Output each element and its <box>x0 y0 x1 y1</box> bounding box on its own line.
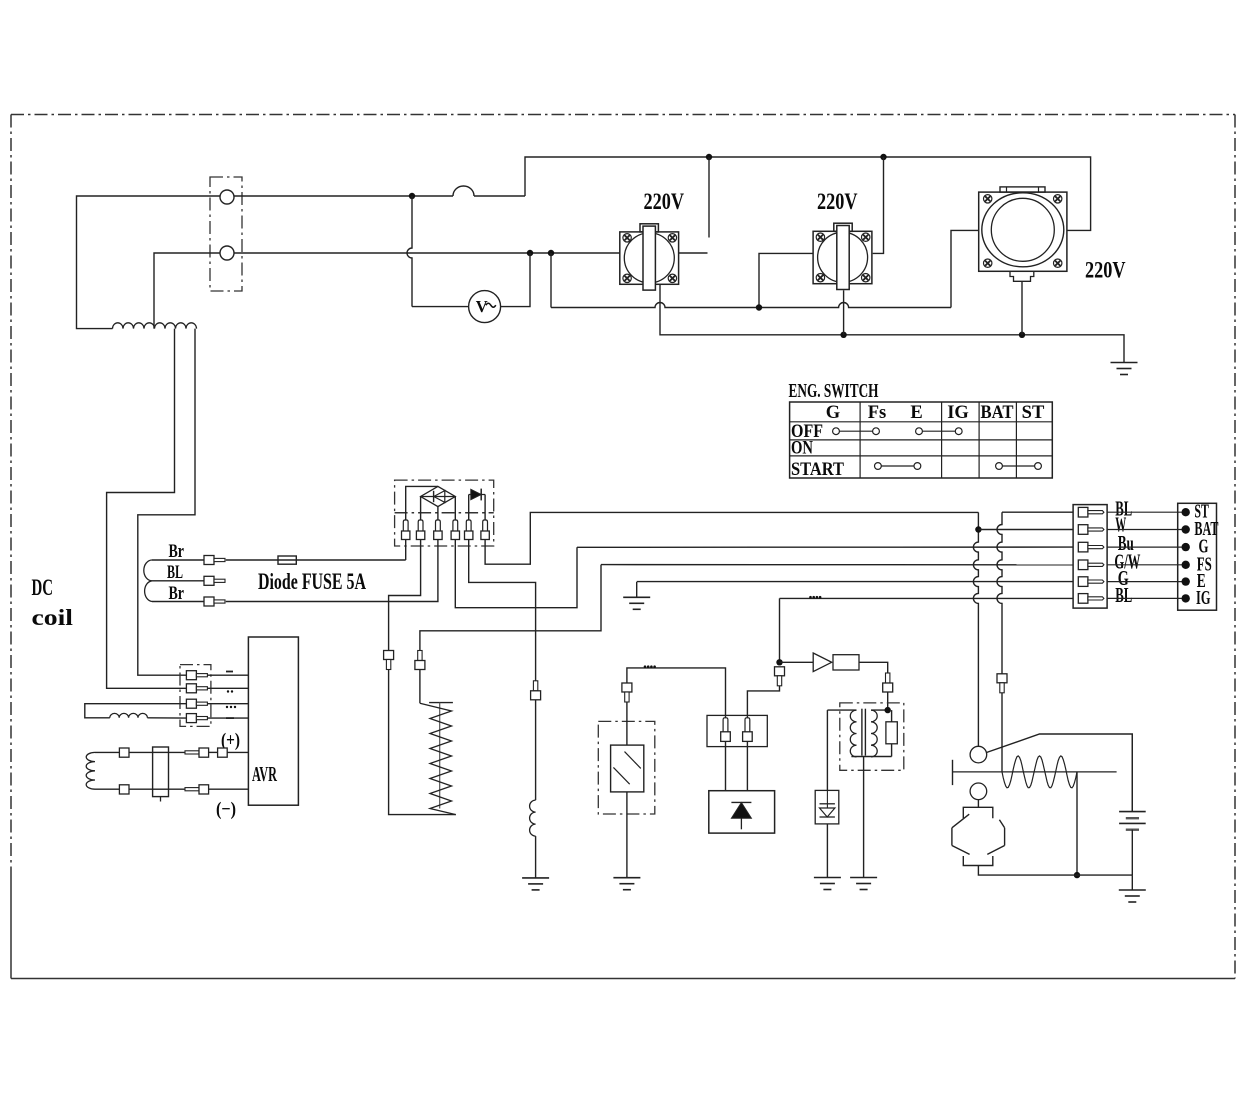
wire: relay coil end to ground bus <box>1076 772 1078 875</box>
wire: connector to ignition coil <box>887 692 889 710</box>
node: V-meter right branch <box>527 250 533 256</box>
wire: terminal TB1-2 to winding center tap <box>154 253 220 329</box>
wire: outlet2 right to top bus <box>873 157 884 253</box>
wire: battery to ground <box>1131 875 1133 890</box>
AVR connector 3 <box>186 699 196 708</box>
AVR box <box>248 637 298 805</box>
wire: resistor to ignition coil connector <box>859 662 888 673</box>
wire (-) row <box>95 788 119 790</box>
brush holder <box>153 747 169 797</box>
wire: pin5 to lamp branch connector <box>469 540 536 681</box>
wire to terminal E <box>1107 581 1186 583</box>
wire (+) row <box>95 751 119 753</box>
node: starter ground bus <box>1074 872 1080 878</box>
wire to terminal IG <box>1107 597 1186 599</box>
wire: pin2 to test connector A <box>389 540 421 651</box>
SCR box <box>709 791 775 833</box>
wire: diode box to ground <box>826 824 828 878</box>
node: socket tab junction <box>1019 332 1025 338</box>
wire: lamp to ground <box>626 792 628 814</box>
terminal BAT <box>1182 525 1190 533</box>
spark plug resistor <box>886 722 897 744</box>
wire: TB1-2 row to outlet1 <box>234 252 620 254</box>
wire: winding bottoms bus <box>851 756 891 758</box>
svg-text:BL: BL <box>1115 583 1132 607</box>
wire to terminal FS <box>1107 564 1186 566</box>
connector: ignition coil primary <box>886 673 890 683</box>
wire: connector B to resistor top <box>419 670 421 704</box>
ground: igniter diode <box>814 877 841 879</box>
bridge rectifier BR1 <box>421 486 456 506</box>
choke coil to ground <box>530 800 536 836</box>
wire to terminal BAT <box>1107 529 1186 531</box>
node: top bus / outlet2 feed <box>880 154 886 160</box>
border frame top <box>11 114 1235 116</box>
border frame right <box>1234 115 1236 979</box>
wire: terminal TB1-1 to stator winding left <box>77 196 221 329</box>
wire: outlet1 right stub (open contact) <box>679 252 708 254</box>
svg-text:Br: Br <box>169 541 185 562</box>
wire: G/W bundle wire (FS) <box>601 564 1073 566</box>
svg-text:Fs: Fs <box>868 403 887 423</box>
ground: choke <box>522 877 549 879</box>
svg-text:220V: 220V <box>1085 258 1126 283</box>
node: outlet2 tab junction <box>840 332 846 338</box>
svg-text:IG: IG <box>1196 587 1211 609</box>
connector: Br top <box>204 556 214 565</box>
wire: pin6 to ST bundle wire <box>485 512 978 564</box>
ignition coil unit box <box>840 703 904 770</box>
starter motor M <box>963 807 993 818</box>
wire: outlet2 bottom tab <box>843 290 845 335</box>
wire: voltmeter to wire2 <box>501 253 530 307</box>
relay coil (wavy) <box>1002 756 1077 788</box>
connector: pin5 branch <box>533 681 537 691</box>
connector pair (-) <box>185 788 199 791</box>
ground: E terminal <box>636 582 638 597</box>
ignition coil core <box>861 709 863 756</box>
wire: primary top <box>827 709 856 711</box>
diode box (igniter) <box>815 790 839 824</box>
node: ignition junction <box>776 659 782 665</box>
battery BAT <box>1131 734 1133 812</box>
ignition coil secondary winding <box>871 710 877 757</box>
ignition coil primary winding <box>850 710 856 757</box>
phase marks <box>226 671 233 673</box>
node: coil/resistor top <box>885 707 891 713</box>
wire: earth line to ground <box>660 284 1124 362</box>
ground: battery <box>1119 889 1146 891</box>
wire: socket bottom tab <box>1021 281 1023 335</box>
ground: ignition coil <box>850 877 877 879</box>
fuse FUSE 5A <box>278 556 296 564</box>
wire: connector to relay coil <box>1001 693 1003 772</box>
border frame left <box>10 115 12 873</box>
loom wire 1 (ST drop) <box>973 512 978 746</box>
wire: ignition node to diode-resistor <box>780 661 814 663</box>
svg-text:(−): (−) <box>216 799 236 820</box>
round socket 220V <box>979 192 1067 271</box>
wire: fuse to rectifier pin1 <box>405 540 407 561</box>
wire: connector A to resistor bottom <box>389 670 456 815</box>
svg-text:V: V <box>476 297 488 316</box>
wire: connector down-left to pulse box pin2 <box>747 686 779 718</box>
wire to terminal ST <box>1107 511 1186 513</box>
svg-text:ENG. SWITCH: ENG. SWITCH <box>789 380 879 402</box>
terminal ST <box>1182 508 1190 516</box>
wire: contact to starter <box>977 782 979 784</box>
wire: winding tap to AVR connector 2 <box>107 329 187 689</box>
connector: ignition to pulse box <box>775 667 785 676</box>
harness mark on lamp wire <box>644 665 647 668</box>
connector A (pin2) <box>384 651 394 660</box>
sense winding loop <box>85 704 187 718</box>
svg-text:coil: coil <box>32 605 74 630</box>
wire Br top row <box>152 559 204 561</box>
stator main winding L1 <box>113 323 197 329</box>
connector B (to FS wire) <box>418 651 422 661</box>
ground: mains earth <box>1111 362 1138 364</box>
DC charge coil <box>144 560 152 602</box>
svg-text:Diode FUSE 5A: Diode FUSE 5A <box>258 569 366 594</box>
connector: oil lamp <box>622 683 632 692</box>
node: bus drop branch <box>548 250 554 256</box>
node: loom1 / BAT wire <box>975 526 981 532</box>
terminal FS <box>1182 561 1190 569</box>
pulse box pin 1 <box>723 718 728 732</box>
svg-text:ON: ON <box>791 439 814 459</box>
resistor R2 <box>833 655 859 670</box>
harness mark on IG wire <box>809 596 812 599</box>
svg-text:E: E <box>910 403 922 423</box>
terminal IG <box>1182 594 1190 602</box>
node: top bus / outlet1 switch <box>706 154 712 160</box>
connector pair (+) <box>185 751 199 754</box>
diode D1 <box>469 494 485 496</box>
AVR connector 2 <box>186 684 196 693</box>
engine switch table <box>790 402 1053 478</box>
terminal E <box>1182 577 1190 585</box>
oil warning lamp box <box>598 721 655 814</box>
connector: BL <box>204 576 214 585</box>
wire BL row (unplugged) <box>152 580 204 582</box>
wire: Bu bundle wire (G) <box>577 546 1073 548</box>
relay frame bar <box>952 760 954 785</box>
svg-text:IG: IG <box>947 403 969 423</box>
wire: pin4 to bundle wire G <box>455 540 577 608</box>
loom wire 2 (relay drop) <box>997 512 1002 674</box>
svg-text:BAT: BAT <box>981 403 1015 423</box>
wire to terminal G <box>1107 546 1186 548</box>
switch contacts START row <box>875 463 882 470</box>
svg-text:ST: ST <box>1022 403 1045 423</box>
pulse box pin 2 <box>745 718 750 732</box>
pulse connector box <box>707 715 767 746</box>
svg-text:START: START <box>791 460 845 480</box>
voltmeter V~ <box>469 291 501 323</box>
diode (triangle) D2 <box>813 653 832 672</box>
field exciter coil <box>86 752 95 789</box>
wire: junction down to voltmeter (hops wire2) <box>407 196 412 307</box>
svg-text:220V: 220V <box>644 189 685 214</box>
wire: winding right end to AVR connector 1 <box>138 329 195 676</box>
wire: switch drop to outlet1 contact (open) <box>708 157 710 238</box>
switch contacts OFF row <box>833 428 840 435</box>
relay blade to battery <box>987 734 1133 812</box>
wire: connector B up to FS bundle wire <box>420 565 601 651</box>
svg-text:G: G <box>826 403 840 423</box>
wire: E ground to bundle (E) <box>637 581 1073 583</box>
outlet socket 220V #1 <box>620 232 679 284</box>
rectifier pins 1-6 <box>403 520 408 531</box>
wire Br bottom row to rectifier pin3 <box>152 601 204 603</box>
relay contact circle (from loom1) <box>970 746 987 763</box>
outlet socket 220V #2 <box>813 231 872 283</box>
wire: TB1-1 to breaker and top bus <box>234 195 453 197</box>
rectifier internal wires <box>406 486 438 520</box>
svg-text:AVR: AVR <box>252 762 277 786</box>
wire: secondary top to node <box>871 709 888 711</box>
svg-text:220V: 220V <box>817 189 858 214</box>
engine switch connector box <box>1178 503 1217 610</box>
AVR connector 4 <box>186 714 196 723</box>
terminal block TB1 <box>210 177 242 291</box>
svg-text:DC: DC <box>32 575 54 600</box>
wire: outlet2 left feed riser <box>759 253 813 307</box>
connector: relay feed <box>997 674 1007 683</box>
relay contact circle 2 (starter) <box>970 783 987 800</box>
wire: connector to oil lamp <box>535 700 537 800</box>
border frame bottom <box>11 978 1235 980</box>
wire: primary left to regulator diode <box>826 710 828 790</box>
wire: BAT wire from loom1 <box>978 529 1073 531</box>
wire: neutral bus (hops outlet tabs) <box>550 253 552 308</box>
ground: oil lamp <box>613 877 640 879</box>
svg-text:BL: BL <box>167 562 183 583</box>
wire: loom2 top to ST pin <box>1002 511 1073 513</box>
terminal G <box>1182 543 1190 551</box>
wire: lamp wire into pulse pin1 <box>627 668 726 718</box>
wire: IG wire down to ignition node <box>779 598 781 662</box>
resistor (rheostat) R-load <box>429 702 453 704</box>
AVR connector 1 <box>186 671 196 680</box>
wire: coil bottom to ground <box>863 757 865 878</box>
wire: BL bundle wire (IG) <box>780 597 1074 599</box>
connector block 6P <box>1073 505 1107 608</box>
rectifier unit box <box>395 480 494 546</box>
circuit breaker CB <box>453 186 474 196</box>
node: wire1/V-branch junction <box>409 193 415 199</box>
AVR connector box <box>180 665 211 727</box>
wire: pulse pins to SCR box <box>725 741 727 790</box>
wire: starter to ground bus <box>978 866 1132 876</box>
connector: Br bottom <box>204 597 214 606</box>
